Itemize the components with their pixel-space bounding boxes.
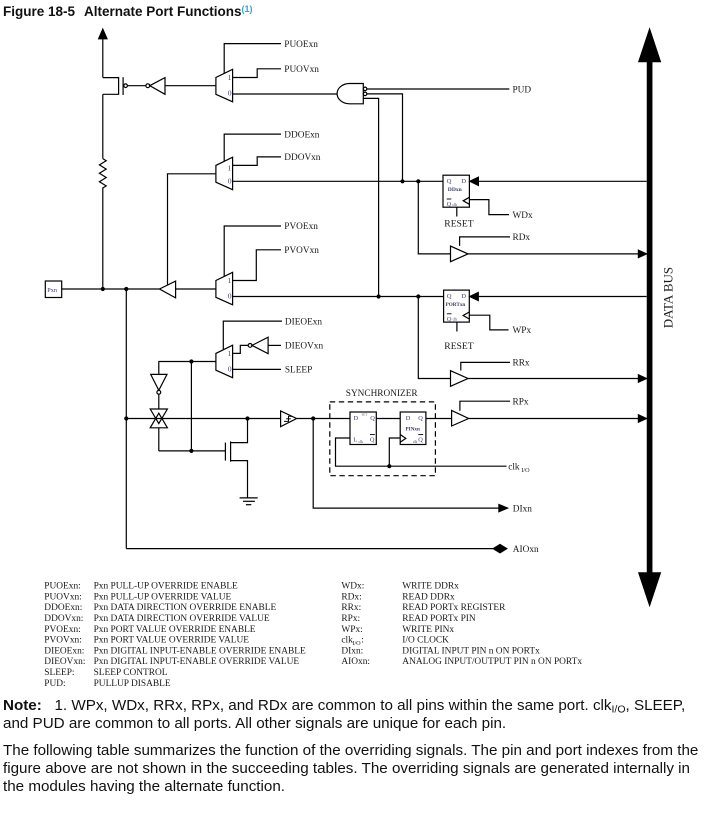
wire RPx buffer output to data bus [469,415,647,422]
inverter U4 (DIEOV) [248,337,268,353]
svg-text:PULLUP DISABLE: PULLUP DISABLE [94,679,171,689]
svg-text:RDx: RDx [513,233,531,243]
svg-text:WDx: WDx [513,211,533,221]
svg-text:WRITE DDRx: WRITE DDRx [402,582,459,592]
svg-text:WPx: WPx [513,326,532,336]
svg-text:SLEEP: SLEEP [285,366,312,376]
svg-text:WRITE PINx: WRITE PINx [402,625,454,635]
DDxn reset stub [456,207,458,216]
schmitt trigger U6 [281,411,297,427]
svg-text:DDOVxn: DDOVxn [284,153,321,163]
svg-text:DATA BUS: DATA BUS [661,267,676,328]
wire DIEOExn select [223,321,282,349]
resistor R1 (pull-up) [99,94,106,289]
wire RDx buffer output to data bus [468,250,647,257]
svg-text:D: D [354,415,359,422]
wire analog gate control row [159,449,226,453]
svg-text:I/O CLOCK: I/O CLOCK [402,636,449,646]
svg-text:DIEOVxn:: DIEOVxn: [44,657,85,667]
data bus [639,29,661,605]
svg-text:SLEEP CONTROL: SLEEP CONTROL [94,668,168,678]
flip-flop DDxn [443,175,469,208]
svg-text:PUD:: PUD: [44,679,65,689]
svg-text:READ DDRx: READ DDRx [402,592,455,602]
svg-text:Pxn: Pxn [47,287,57,294]
svg-text:Pxn DATA DIRECTION OVERRIDE EN: Pxn DATA DIRECTION OVERRIDE ENABLE [94,603,277,613]
synchronizer dashed box [330,402,436,476]
svg-text:DDOVxn:: DDOVxn: [44,614,83,624]
svg-text:WPx:: WPx: [341,625,362,635]
transmission gate TG1 [150,409,167,451]
svg-text:Q: Q [370,437,375,444]
VCC pull-up arrow [99,29,107,78]
wire D input of PORTxn from data bus [470,292,647,300]
pull-up transistor Q1 (PMOS) [103,77,146,95]
svg-text:Q: Q [418,415,423,422]
wire AND input 3 from PORTxn Q [363,98,378,296]
svg-text:0: 0 [228,292,232,301]
mux DDOE [216,157,233,190]
svg-text:0: 0 [228,89,232,98]
svg-text:clk: clk [359,440,364,444]
svg-text:READ PORTx REGISTER: READ PORTx REGISTER [402,603,506,613]
svg-text:D: D [406,415,411,422]
svg-text:DIxn:: DIxn: [341,646,363,656]
mux PVOE [216,272,233,305]
svg-text:Pxn DIGITAL INPUT-ENABLE OVERR: Pxn DIGITAL INPUT-ENABLE OVERRIDE VALUE [94,657,300,667]
wire AND output to PUOE mux input 0 [233,93,338,95]
wire pin net vertical to AIOxn [124,289,128,549]
wire pin net [62,287,160,291]
svg-text:PUD: PUD [513,85,532,95]
wire DDOE mux output to driver enable [168,174,216,285]
svg-text:0: 0 [228,365,232,374]
svg-text:Q: Q [418,437,423,444]
wire DDOExn select [224,134,281,161]
svg-text:SET: SET [362,412,368,416]
svg-text:RDx:: RDx: [341,592,361,602]
wire DIEO mux output [159,359,216,374]
legend left column [44,582,306,689]
wire RDx enable [460,237,510,246]
svg-text:1: 1 [228,276,232,285]
svg-text:PVOExn:: PVOExn: [44,625,80,635]
svg-text:1: 1 [228,163,232,172]
svg-text:Pxn DIGITAL INPUT-ENABLE OVERR: Pxn DIGITAL INPUT-ENABLE OVERRIDE ENABLE [94,646,306,656]
label clk I/O [508,462,530,473]
svg-text:SYNCHRONIZER: SYNCHRONIZER [346,389,419,399]
tri-state buffer RRx [451,371,469,387]
svg-text:PVOVxn: PVOVxn [284,246,319,256]
wire PUOVxn to mux input 1 [233,69,281,78]
svg-text:Q: Q [447,293,452,300]
wire DIEO output to NMOS gate [190,362,192,451]
svg-text:DIEOVxn: DIEOVxn [285,342,324,352]
svg-text:PINxn: PINxn [406,426,421,432]
flip-flop PORTxn [444,290,470,323]
svg-text:PUOExn:: PUOExn: [44,582,80,592]
svg-text:DDOExn:: DDOExn: [44,603,82,613]
pin Pxn [45,281,61,298]
svg-text:AIOxn:: AIOxn: [341,657,370,667]
svg-text:clk: clk [452,203,457,207]
wire PUOExn select [224,44,281,74]
latch FF1 (sync latch) [350,412,376,445]
svg-text::: : [361,636,364,646]
legend right column [341,582,582,668]
wire RPx enable [460,401,510,411]
wire PINxn Q to RPx buffer [426,418,452,420]
svg-text:PUOVxn:: PUOVxn: [44,592,82,602]
wire DDxn Q net (mux DDOE input 0) [233,179,443,183]
wire digital input row (pin to schmitt) [126,418,280,420]
svg-text:Pxn PORT VALUE OVERRIDE ENABLE: Pxn PORT VALUE OVERRIDE ENABLE [94,625,256,635]
wire clk I/O net [336,438,507,468]
wire SLEEP to mux input 0 [233,368,281,370]
wire WDx clock [469,200,509,215]
svg-text:clk: clk [413,440,418,444]
wire RRx buffer output to data bus [468,375,647,382]
svg-text:PVOExn: PVOExn [284,222,318,232]
svg-text:Q: Q [447,178,452,185]
svg-text:clk: clk [508,462,520,472]
wire DDOVxn to mux input 1 [233,157,281,166]
svg-text:Pxn PORT VALUE OVERRIDE VALUE: Pxn PORT VALUE OVERRIDE VALUE [94,636,250,646]
mux DIEO [216,345,233,378]
svg-text:ANALOG INPUT/OUTPUT PIN n ON P: ANALOG INPUT/OUTPUT PIN n ON PORTx [402,657,582,667]
svg-text:AIOxn: AIOxn [513,545,539,555]
svg-text:1: 1 [228,73,232,82]
svg-text:RESET: RESET [444,219,473,230]
wire PORTxn Q net (mux PVOE input 0) [233,294,444,298]
wire schmitt output to synchronizer [297,416,350,420]
svg-text:DIGITAL INPUT PIN n ON PORTx: DIGITAL INPUT PIN n ON PORTx [402,646,540,656]
and gate U2 (pull-up condition) [337,84,367,104]
svg-text:PVOVxn:: PVOVxn: [44,636,82,646]
transistor Q2 (NMOS sleep clamp) [225,416,249,498]
wire inverter input from PUOE mux output [165,85,216,87]
figure title [3,4,253,19]
tri-state buffer RPx [452,410,469,426]
wire RRx enable [461,362,510,370]
wire PUD to AND inverted input 1 [367,88,509,90]
output driver buffer U3 [160,281,176,298]
PORTxn reset stub [456,322,458,331]
svg-text:D: D [461,178,466,185]
svg-text:Q: Q [447,201,452,208]
svg-text:I/O: I/O [521,467,530,474]
svg-text:DDOExn: DDOExn [284,130,319,140]
svg-text:0: 0 [228,177,232,186]
inverter U1 (pull-up enable) [146,78,165,95]
svg-text:RRx:: RRx: [341,603,361,613]
wire AIOxn [126,544,507,552]
note paragraph [3,698,685,714]
svg-text:RRx: RRx [513,359,530,369]
svg-text:DDxn: DDxn [448,187,463,193]
wire PVOExn select [224,226,281,276]
svg-text:Pxn PULL-UP OVERRIDE ENABLE: Pxn PULL-UP OVERRIDE ENABLE [94,582,238,592]
svg-text:READ PORTx PIN: READ PORTx PIN [402,614,476,624]
svg-text:SLEEP:: SLEEP: [44,668,74,678]
svg-text:PUOExn: PUOExn [284,40,318,50]
svg-text:1: 1 [228,349,232,358]
wire FF1 Q to PINxn D [376,418,400,420]
flip-flop PINxn [400,412,426,445]
svg-text:RPx:: RPx: [341,614,360,624]
wire WPx clock [469,315,508,330]
wire PVOVxn to mux input 1 [233,250,281,281]
ground [240,498,258,505]
svg-text:clk: clk [341,636,353,646]
tri-state buffer RDx [451,246,469,262]
svg-text:RPx: RPx [513,397,529,407]
svg-text:DIEOExn:: DIEOExn: [44,646,84,656]
mux PUOE [216,69,233,102]
svg-text:RESET: RESET [444,341,473,352]
svg-text:Q: Q [370,415,375,422]
wire D input of DDxn from data bus [470,177,647,185]
svg-text:WDx:: WDx: [341,582,364,592]
wire DIEOVxn to inverter [268,344,281,346]
svg-text:L: L [353,437,357,444]
wire PVOE mux output to driver [176,288,216,290]
wire PORTxn Q to RRx buffer [418,297,450,379]
svg-text:PUOVxn: PUOVxn [284,65,319,75]
wire DIxn [313,419,507,512]
svg-text:Pxn DATA DIRECTION OVERRIDE VA: Pxn DATA DIRECTION OVERRIDE VALUE [94,614,270,624]
wire inverter output to mux input 1 [233,345,249,353]
wire AND inverted input 2 from DDxn Q [367,94,403,181]
inverter U5 (sleep, pointing down) [151,374,167,409]
svg-text:clk: clk [453,318,458,322]
svg-text:Q: Q [447,316,452,323]
svg-text:DIEOExn: DIEOExn [285,317,323,327]
svg-text:D: D [461,293,466,300]
body paragraph [3,743,698,759]
svg-text:PORTxn: PORTxn [446,302,466,308]
svg-text:Pxn PULL-UP OVERRIDE VALUE: Pxn PULL-UP OVERRIDE VALUE [94,592,232,602]
wire DDxn Q to RDx buffer [418,181,450,254]
svg-text:DIxn: DIxn [513,504,532,514]
